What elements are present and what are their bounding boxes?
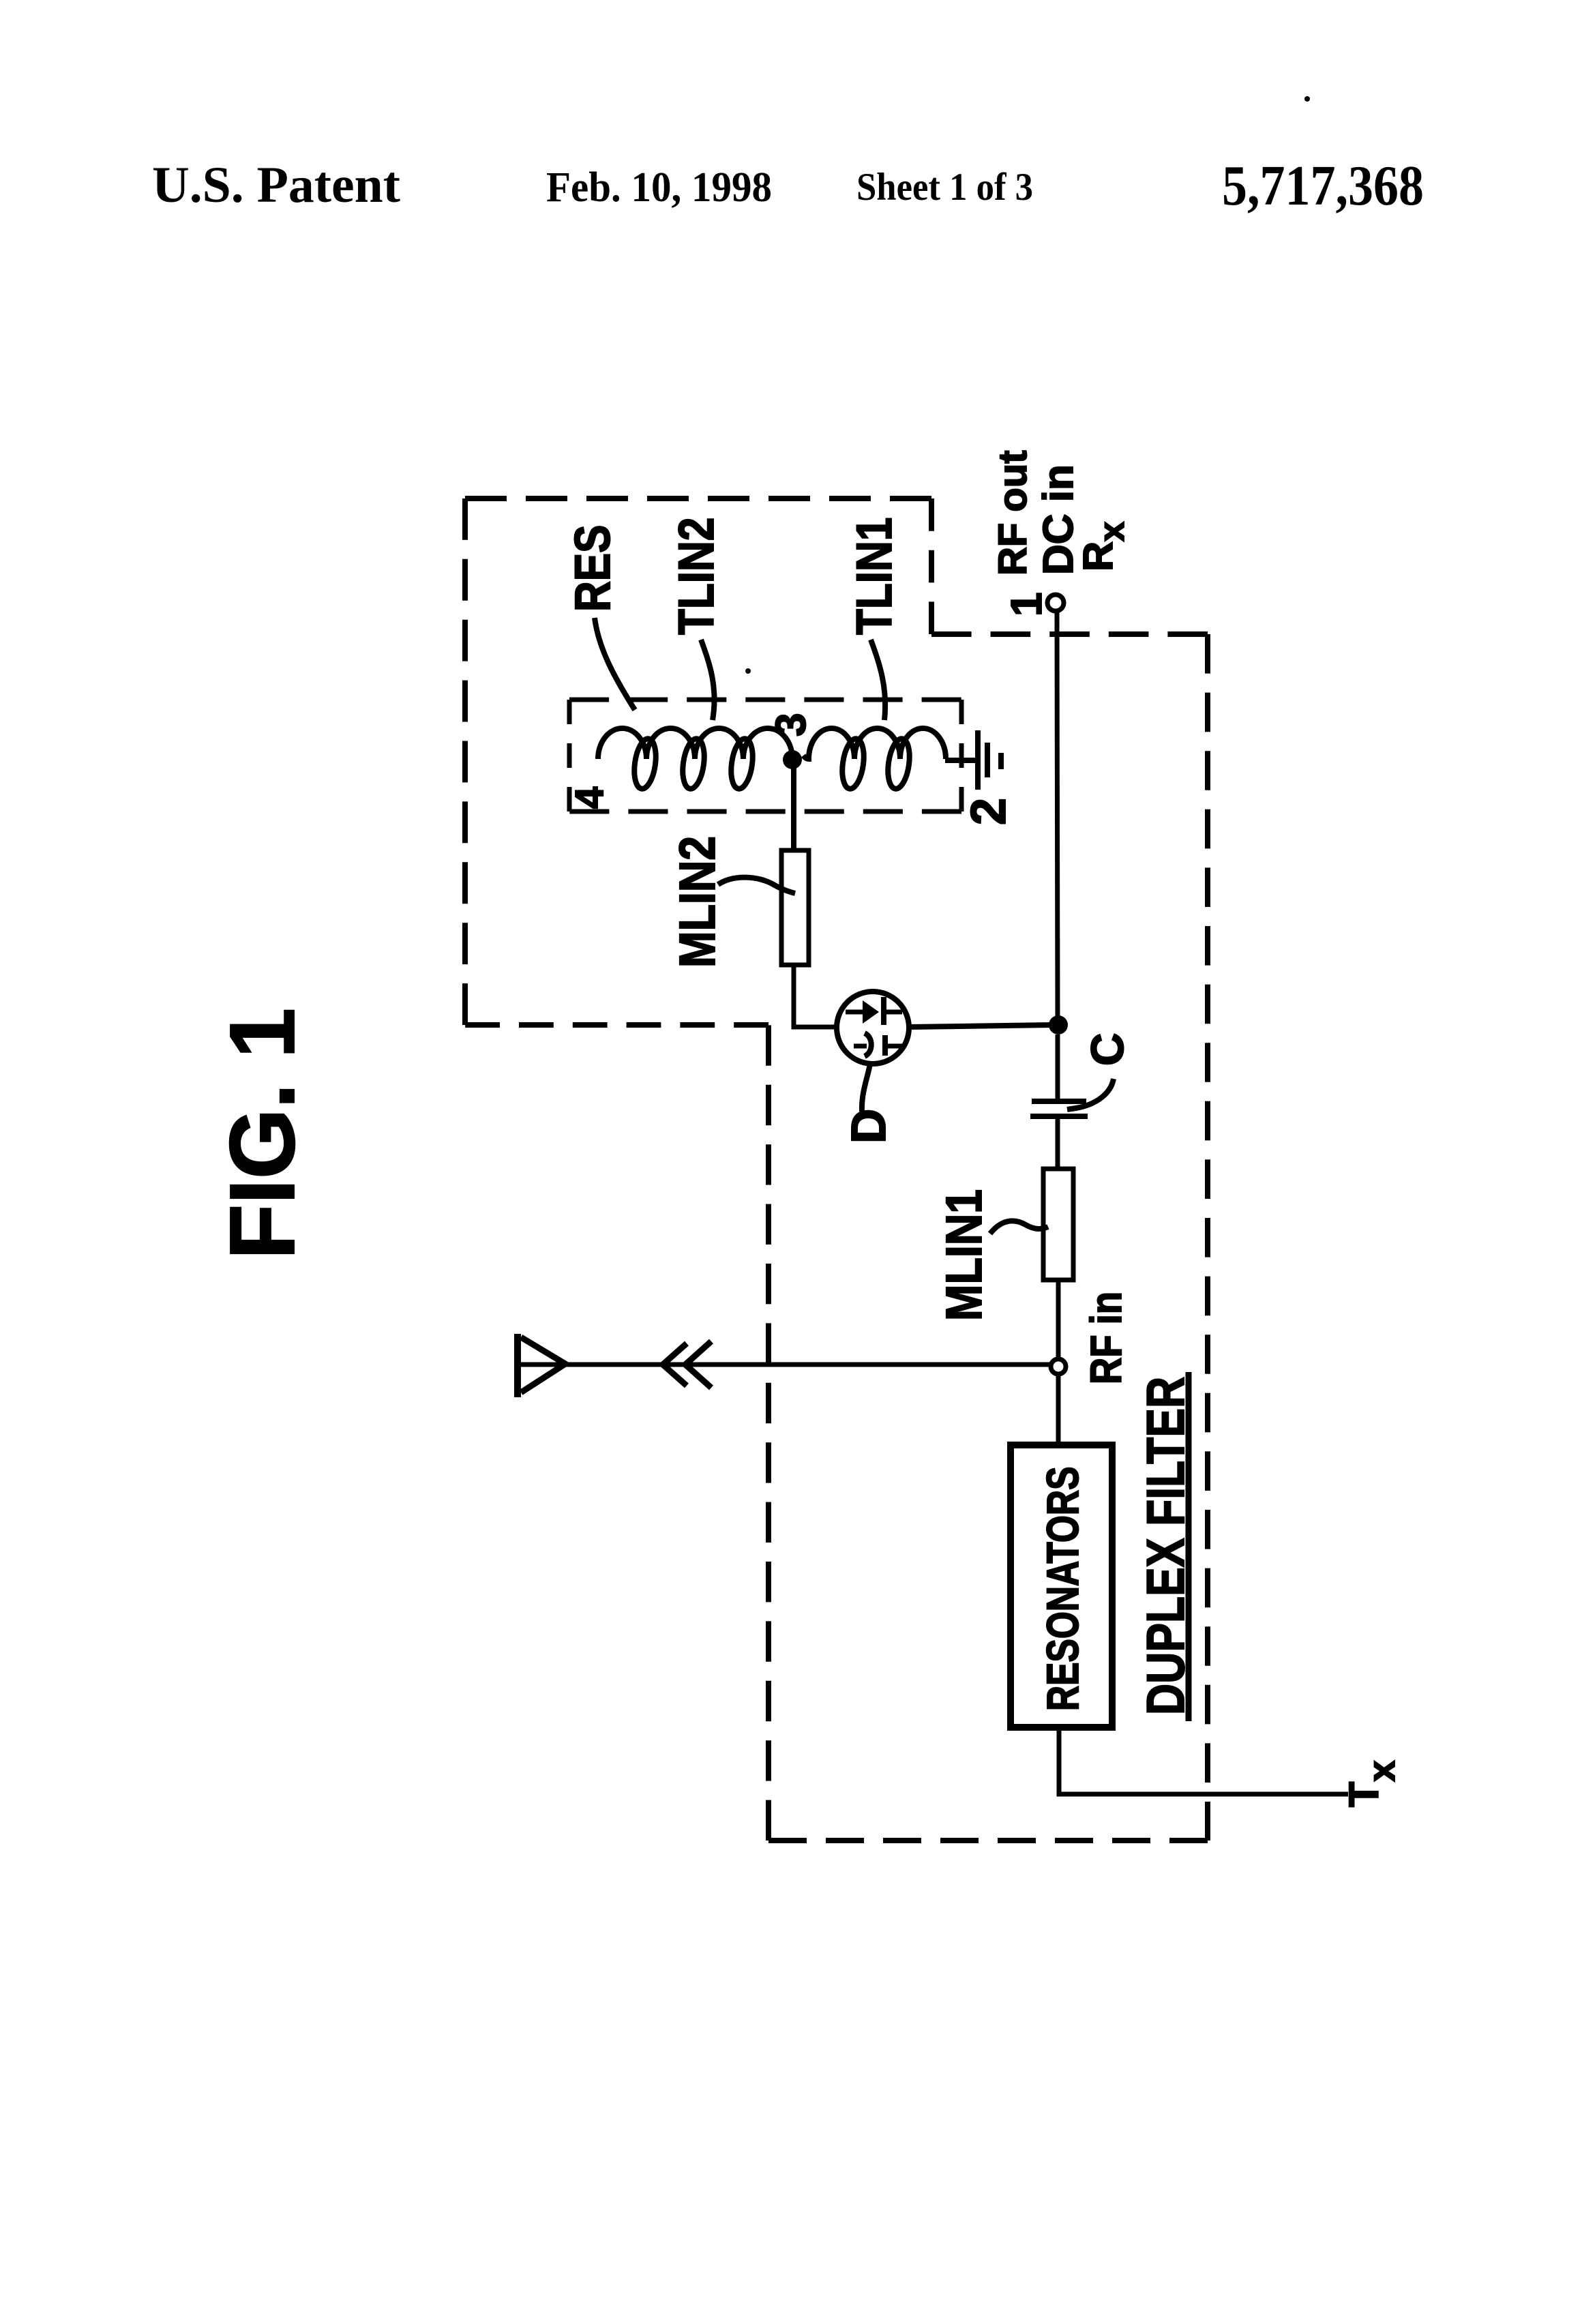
leader TLIN1 <box>871 640 885 720</box>
wire RF in to resonators <box>1056 1374 1061 1445</box>
wire node1 down to junction <box>1057 612 1058 1020</box>
svg-text:Tx: Tx <box>1341 1761 1403 1807</box>
microstrip MLIN2 <box>781 850 809 965</box>
outer dashed tuning-circuit boundary <box>465 498 1208 1841</box>
svg-text:2: 2 <box>961 798 1016 825</box>
RF in terminal circle <box>1051 1359 1066 1374</box>
svg-text:RF out: RF out <box>991 450 1035 576</box>
wire node3 to MLIN2 <box>791 760 796 850</box>
wire capacitor to MLIN1 <box>1056 1119 1060 1169</box>
wire diode to junction <box>909 1025 1054 1027</box>
ground symbol <box>945 730 1001 790</box>
wire MLIN1 to RF in node <box>1056 1280 1061 1359</box>
svg-text:1: 1 <box>1002 592 1051 616</box>
svg-text:RES: RES <box>565 524 621 612</box>
leader MLIN2 <box>718 878 795 893</box>
svg-text:Feb. 10, 1998: Feb. 10, 1998 <box>546 164 772 211</box>
antenna symbol <box>518 1334 565 1397</box>
svg-text:TLIN1: TLIN1 <box>847 518 902 635</box>
svg-text:5,717,368: 5,717,368 <box>1222 154 1424 218</box>
leader RES <box>595 618 635 710</box>
leader MLIN1 <box>990 1221 1048 1234</box>
svg-text:U.S. Patent: U.S. Patent <box>152 157 400 213</box>
antenna wire <box>520 1362 1051 1367</box>
diode D circle <box>837 992 909 1064</box>
capacitor C plates <box>1032 1099 1086 1104</box>
svg-text:MLIN2: MLIN2 <box>669 836 726 968</box>
svg-text:4: 4 <box>567 787 612 809</box>
junction dot <box>1049 1015 1068 1034</box>
wire resonators to Tx <box>1059 1727 1348 1794</box>
node 1 terminal circle <box>1047 595 1064 611</box>
DUPLEX FILTER underline <box>1186 1372 1192 1721</box>
inductor TLIN2 coil humps <box>598 728 792 759</box>
svg-text:TLIN2: TLIN2 <box>669 518 724 635</box>
svg-text:RF in: RF in <box>1081 1292 1131 1384</box>
svg-text:RESONATORS: RESONATORS <box>1037 1467 1088 1711</box>
inner dashed resonator box <box>569 700 961 811</box>
svg-text:Sheet 1 of 3: Sheet 1 of 3 <box>856 166 1033 209</box>
diode D internals <box>846 997 902 1056</box>
wire junction to capacitor <box>1056 1034 1060 1099</box>
inductor TLIN2 coil loops <box>631 737 756 790</box>
leader TLIN2 <box>701 640 715 720</box>
svg-text:MLIN1: MLIN1 <box>936 1189 992 1321</box>
stray speck <box>745 668 751 674</box>
inductor TLIN1 coil loops <box>839 737 912 790</box>
leader D <box>862 1064 870 1112</box>
svg-text:D: D <box>842 1109 896 1144</box>
svg-text:C: C <box>1082 1033 1133 1066</box>
leader C <box>1067 1079 1114 1109</box>
node 3 junction dot <box>783 750 802 769</box>
microstrip MLIN1 <box>1043 1169 1073 1280</box>
wire MLIN2 to diode <box>794 965 837 1027</box>
svg-text:Rx: Rx <box>1075 522 1132 571</box>
antenna chevrons <box>663 1343 687 1386</box>
svg-text:3: 3 <box>768 713 815 736</box>
stray dot top right <box>1304 96 1310 102</box>
svg-text:FIG. 1: FIG. 1 <box>211 1008 314 1260</box>
RESONATORS box <box>1011 1445 1112 1727</box>
inductor TLIN1 coil humps <box>803 728 946 759</box>
